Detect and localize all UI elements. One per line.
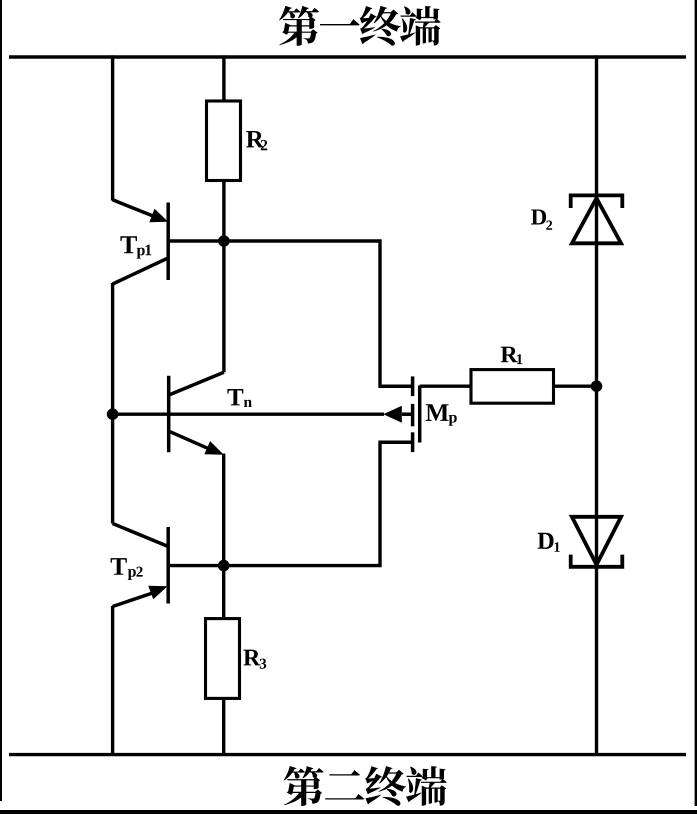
node junction dot at R1 / right rail: [591, 380, 603, 392]
node junction dot at R2/Tp1 base: [218, 235, 230, 247]
label R3: [243, 650, 266, 669]
wire left vertical lower segment: [111, 606, 114, 755]
node junction dot at left rail / Tn base: [107, 408, 119, 420]
label D2: [531, 209, 552, 229]
wire Tn base line to Mp: [113, 413, 384, 416]
wire left vertical upper segment: [111, 55, 114, 200]
resistor R1: [471, 370, 554, 404]
wire node to Mp drain loop: [224, 241, 411, 386]
MOSFET Mp: [379, 376, 420, 452]
wire top rail: [9, 55, 686, 58]
label Tn: [227, 389, 251, 407]
wire R1 to right rail: [554, 385, 597, 388]
wire left vertical middle segment: [111, 283, 114, 524]
wire Tp1 base to node: [169, 239, 224, 242]
wire R3 top lead: [222, 566, 225, 619]
transistor Tp2: [113, 524, 169, 607]
resistor R2: [207, 101, 241, 181]
diode D1: [571, 517, 623, 567]
label second-terminal 第二终端: [284, 766, 447, 806]
wire Mp source loop to node: [224, 442, 411, 565]
label Tp2: [111, 558, 143, 580]
wire Mp gate to R1: [420, 385, 471, 388]
diode D2: [571, 195, 623, 243]
label first-terminal 第一终端: [279, 6, 441, 46]
wire right vertical: [595, 55, 598, 754]
label R2: [246, 131, 267, 150]
label Tp1: [120, 236, 151, 258]
wire R2 bottom lead to node: [222, 181, 225, 242]
wire R3 bottom lead: [222, 698, 225, 754]
wire Tn collector vertical: [222, 241, 225, 372]
wire Tp2 base to node: [169, 564, 224, 567]
transistor Tn: [169, 372, 224, 452]
wire Tn emitter vertical to node: [222, 454, 225, 566]
label Mp: [426, 404, 457, 426]
transistor Tp1: [113, 200, 169, 284]
wire bottom rail: [9, 753, 686, 756]
label R1: [501, 347, 523, 365]
label D1: [538, 533, 560, 552]
node junction dot at Tp2 base / R3: [218, 560, 230, 572]
resistor R3: [206, 619, 240, 699]
wire R2 top lead: [222, 55, 225, 101]
